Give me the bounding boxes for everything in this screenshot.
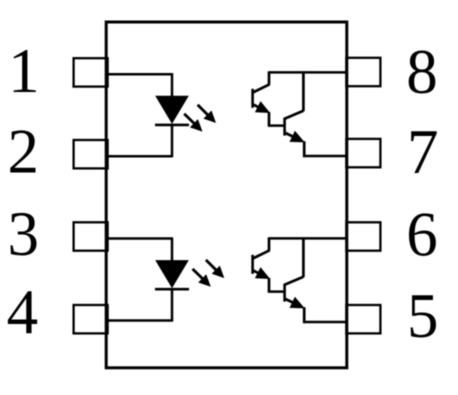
wire collector rail to pin 8 [269, 71, 346, 74]
LED D2 [155, 260, 189, 289]
svg-text:3: 3 [7, 199, 39, 269]
pin 6 box [346, 222, 380, 250]
pin 1 box [74, 58, 108, 86]
svg-text:6: 6 [406, 200, 438, 270]
wire collector rail to pin 6 [269, 237, 346, 240]
light emission arrows D1 [184, 105, 216, 132]
transistor Q2b [285, 237, 305, 323]
LED D1 [155, 96, 189, 125]
transistor Q2a [253, 237, 271, 291]
wire LED D2 cathode to pin 4 [107, 288, 172, 321]
wire pin 1 to LED D1 anode [107, 73, 172, 97]
wire Q1a emitter to Q1b base [268, 124, 285, 127]
pin 3 box [74, 222, 108, 250]
svg-text:7: 7 [407, 117, 439, 187]
transistor Q1b [285, 71, 305, 157]
pin 2 box [74, 140, 108, 168]
wire emitter to pin 5 [303, 321, 346, 324]
pin 7 box [346, 139, 380, 167]
svg-text:2: 2 [7, 117, 39, 187]
svg-text:1: 1 [8, 36, 40, 106]
wire Q2a emitter to Q2b base [268, 290, 285, 293]
IC package outline U1 [106, 22, 347, 368]
svg-text:5: 5 [407, 281, 439, 351]
svg-text:4: 4 [7, 277, 39, 347]
wire emitter to pin 7 [303, 155, 346, 158]
wire LED D1 cathode to pin 2 [107, 124, 172, 157]
pin 5 box [346, 305, 380, 333]
svg-text:8: 8 [406, 37, 438, 107]
wire pin 3 to LED D2 anode [107, 237, 172, 261]
light emission arrows D2 [193, 260, 225, 287]
transistor Q1a [253, 71, 271, 125]
pin 4 box [74, 305, 108, 333]
pin 8 box [346, 58, 380, 86]
